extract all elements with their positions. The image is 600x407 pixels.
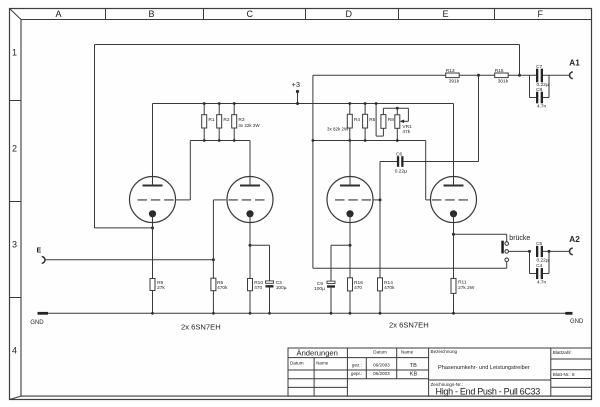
frame inner border top line <box>21 19 592 21</box>
svg-text:2x 6SN7EH: 2x 6SN7EH <box>389 321 429 330</box>
title block outline <box>288 348 592 396</box>
svg-text:Datum: Datum <box>373 349 387 354</box>
svg-text:470k: 470k <box>217 285 228 291</box>
svg-text:A2: A2 <box>569 235 580 244</box>
wire C6 to R13/R15 node <box>403 161 478 163</box>
resistor R4 <box>327 102 360 142</box>
svg-text:0.22µ: 0.22µ <box>395 168 407 174</box>
node +3 terminal <box>296 90 299 93</box>
wire plate node to R13 <box>313 74 446 76</box>
svg-text:4.7n: 4.7n <box>537 104 547 110</box>
svg-text:C: C <box>247 9 254 19</box>
column divider D/E <box>398 9 400 20</box>
svg-text:C4: C4 <box>536 263 542 269</box>
svg-text:Phasenumkehr- und Leistungstre: Phasenumkehr- und Leistungstreiber <box>438 365 530 371</box>
capacitor C5 <box>536 241 549 264</box>
svg-text:KB: KB <box>410 372 418 378</box>
svg-text:R10: R10 <box>254 280 263 286</box>
svg-text:R8: R8 <box>388 117 394 123</box>
wire V4 plate lead <box>453 104 455 186</box>
node E / V2 grid junction <box>212 258 215 261</box>
row divider 2/3 <box>10 201 22 203</box>
capacitor C4 <box>530 251 550 285</box>
svg-text:A1: A1 <box>569 59 580 68</box>
capacitor C7 <box>536 64 549 88</box>
wire V2 plate node line <box>190 140 250 142</box>
svg-text:R14: R14 <box>384 280 393 286</box>
svg-text:47k: 47k <box>402 129 410 135</box>
svg-text:4.7n: 4.7n <box>537 280 547 286</box>
svg-text:C7: C7 <box>536 64 542 70</box>
wire V1 grid riser <box>189 141 191 200</box>
svg-text:+3: +3 <box>292 80 301 89</box>
node R13/R15 junction <box>477 74 480 77</box>
svg-text:E: E <box>443 9 449 19</box>
connector A2 <box>570 248 573 255</box>
node V4 cathode junction <box>452 233 455 236</box>
svg-text:27k 2W: 27k 2W <box>458 285 475 291</box>
wire V3 plate node horizontal <box>313 140 426 142</box>
svg-text:R4: R4 <box>354 117 360 123</box>
wire V3 grid stub <box>373 199 380 201</box>
ground terminal right <box>565 312 572 315</box>
node +3 rail junction <box>296 102 299 105</box>
svg-text:0.22µ: 0.22µ <box>537 257 549 263</box>
svg-text:GND: GND <box>30 320 44 326</box>
svg-text:R15: R15 <box>495 68 504 74</box>
wire V2 grid drop <box>212 200 214 260</box>
svg-text:470k: 470k <box>384 285 395 291</box>
wire V2 grid stub <box>213 199 226 201</box>
svg-text:Änderungen: Änderungen <box>297 349 338 358</box>
svg-text:3: 3 <box>12 240 17 250</box>
svg-text:C6: C6 <box>396 151 402 157</box>
svg-text:Datum: Datum <box>290 361 304 366</box>
wire bridge to plate node <box>313 267 507 269</box>
svg-text:R11: R11 <box>458 280 467 286</box>
wire V4 grid drop <box>425 141 427 200</box>
node V3 cathode junction <box>349 244 352 247</box>
wire V3 plate node vertical <box>312 75 314 268</box>
node VR1 top junction <box>396 107 399 110</box>
capacitor C8 <box>530 75 550 109</box>
svg-text:A: A <box>56 9 62 19</box>
column divider B/C <box>203 9 205 20</box>
wire feedback top line <box>95 44 520 46</box>
node C5 right junction <box>548 250 551 253</box>
svg-text:gepr.:: gepr.: <box>351 371 363 376</box>
wire R13/R15 node drop <box>478 75 480 161</box>
wire bridge pin3 drop <box>506 262 508 269</box>
wire feedback right vertical <box>519 45 521 76</box>
svg-text:100µ: 100µ <box>314 286 325 292</box>
wire R8 top to VR1 <box>383 107 408 109</box>
frame corner diagonal top-left <box>10 9 22 20</box>
wire V1 plate lead <box>152 104 154 186</box>
resistor R9 <box>150 214 165 315</box>
svg-text:F: F <box>538 9 544 19</box>
svg-text:301k: 301k <box>498 79 509 85</box>
resistor R15 <box>495 68 509 85</box>
svg-text:06/2003: 06/2003 <box>373 362 390 367</box>
svg-text:3x 82k 2W: 3x 82k 2W <box>327 126 349 131</box>
ground rail <box>38 312 573 314</box>
wire V4 cathode lead <box>453 214 455 279</box>
wire V3 plate lead <box>349 141 351 186</box>
svg-text:2: 2 <box>12 144 17 154</box>
jumper brücke <box>501 235 530 262</box>
resistor R13 <box>446 68 460 85</box>
svg-text:C8: C8 <box>536 87 542 93</box>
svg-text:E: E <box>37 248 42 255</box>
wire E input line <box>45 259 214 261</box>
wire bridge pin2 to C5 <box>509 250 530 252</box>
capacitor C6 <box>395 151 407 174</box>
wire C7 to A1 <box>543 74 569 76</box>
svg-text:High - End Push - Pull 6C33: High - End Push - Pull 6C33 <box>436 387 541 397</box>
row divider 1/2 <box>10 100 22 102</box>
svg-text:brücke: brücke <box>509 235 530 242</box>
tube V2 (second 6SN7 triode) <box>226 177 273 223</box>
ground terminal left <box>38 312 49 315</box>
resistor R6 <box>211 260 228 315</box>
wire V2 plate lead <box>249 141 251 186</box>
node V1 cathode junction <box>151 226 154 229</box>
wire V1 grid stub <box>175 199 190 201</box>
wire R15 to C7 <box>508 74 536 76</box>
wire cathode to bridge pin1 <box>454 233 507 235</box>
connector E input <box>42 257 45 264</box>
column divider A/B <box>105 9 107 20</box>
frame inner border bottom line <box>21 395 592 397</box>
svg-text:C9: C9 <box>317 281 323 287</box>
svg-text:C5: C5 <box>536 241 542 247</box>
wire R13 to R15 <box>459 74 495 76</box>
svg-text:D: D <box>346 9 353 19</box>
wire C5 to A2 <box>543 250 569 252</box>
svg-text:391k: 391k <box>449 79 460 85</box>
svg-text:Name: Name <box>401 349 414 354</box>
node C5 left junction <box>528 250 531 253</box>
wire +3 stub <box>297 92 299 104</box>
node VR1 bottom junction <box>396 139 399 142</box>
resistor R3 <box>232 102 261 142</box>
connector A1 <box>570 72 573 79</box>
resistor R8 <box>381 108 394 136</box>
node plate-node T junction <box>312 139 315 142</box>
frame corner diagonal bottom-left <box>10 396 22 399</box>
svg-text:TB: TB <box>410 363 417 369</box>
svg-text:470: 470 <box>354 285 362 291</box>
svg-text:2x 6SN7EH: 2x 6SN7EH <box>181 322 221 331</box>
resistor R5 <box>363 102 376 142</box>
svg-text:06/2003: 06/2003 <box>373 371 390 376</box>
tube V3 (third 6SN7 triode) <box>327 177 373 223</box>
resistor R11 <box>451 278 475 314</box>
svg-text:R1: R1 <box>208 117 214 123</box>
svg-text:R6: R6 <box>217 280 223 286</box>
svg-text:C3: C3 <box>276 280 282 286</box>
wire V4 grid stub <box>426 199 431 201</box>
resistor R10 <box>248 214 264 315</box>
capacitor C3 <box>250 245 287 314</box>
frame inner border left line <box>20 20 22 397</box>
tube V4 (fourth 6SN7 triode) <box>431 177 477 223</box>
wire feedback left vertical <box>94 45 96 228</box>
svg-text:470: 470 <box>254 285 262 291</box>
wire feedback to V1 cathode <box>95 227 153 229</box>
svg-text:GND: GND <box>570 319 584 325</box>
resistor R16 <box>348 278 364 315</box>
resistor R2 <box>217 102 230 142</box>
row divider 3/4 <box>10 297 22 299</box>
svg-text:Name: Name <box>316 361 329 366</box>
resistor R14 <box>378 162 396 315</box>
tube V1 (left 6SN7 triode) <box>130 177 176 223</box>
svg-text:gez.:: gez.: <box>352 362 362 367</box>
svg-text:4: 4 <box>12 346 17 356</box>
svg-text:1: 1 <box>12 48 17 58</box>
wire V3 cathode lead <box>349 214 351 278</box>
wire B+ rail <box>153 103 454 105</box>
svg-text:Blattzahl:: Blattzahl: <box>553 350 572 355</box>
node R15/C7 junction <box>518 74 521 77</box>
svg-text:B: B <box>149 9 155 19</box>
svg-text:R13: R13 <box>446 68 455 74</box>
svg-text:3x 22k 2W: 3x 22k 2W <box>238 123 260 128</box>
column divider C/D <box>305 9 307 20</box>
svg-text:R16: R16 <box>354 280 363 286</box>
svg-text:27k: 27k <box>157 285 165 291</box>
capacitor C9 <box>314 245 350 314</box>
column divider E/F <box>494 9 496 20</box>
svg-text:R2: R2 <box>223 117 229 123</box>
svg-text:100µ: 100µ <box>276 285 287 291</box>
svg-text:Bezeichnung: Bezeichnung <box>431 349 458 354</box>
svg-text:Blatt-Nr.: 8: Blatt-Nr.: 8 <box>553 372 575 377</box>
resistor R1 <box>202 102 215 142</box>
svg-text:R5: R5 <box>369 117 375 123</box>
svg-text:R9: R9 <box>157 280 163 286</box>
wire V3 grid node line <box>380 161 397 163</box>
wire R8 rail branch <box>375 102 384 136</box>
trimmer VR1 <box>395 108 412 140</box>
